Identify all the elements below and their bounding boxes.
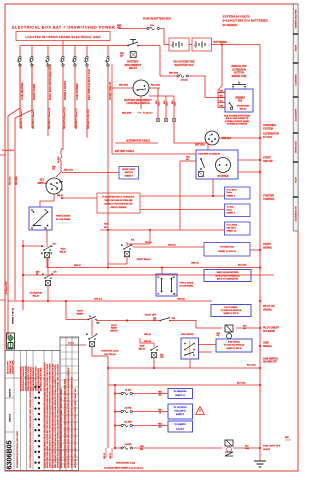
- svg-text:RED-441 To Sh 3,14: RED-441 To Sh 3,14: [87, 109, 90, 129]
- svg-text:10A-#24: 10A-#24: [180, 79, 188, 82]
- saw relay K6: [153, 343, 155, 347]
- svg-text:TIME & DIODE: TIME & DIODE: [56, 216, 71, 218]
- svg-text:INTERLOCK: INTERLOCK: [296, 141, 298, 153]
- svg-text:GRN 112: GRN 112: [144, 341, 151, 343]
- orn 517 wire: [161, 268, 163, 275]
- svg-text:354: 354: [140, 448, 143, 451]
- svg-text:73: 73: [158, 277, 160, 279]
- svg-text:TO SENSORS: TO SENSORS: [173, 391, 187, 393]
- svg-text:BLK 0116: BLK 0116: [237, 382, 246, 384]
- box to joystick pod: [168, 404, 193, 419]
- svg-text:PILOT: PILOT: [77, 310, 84, 312]
- svg-text:MANUAL P2S: MANUAL P2S: [232, 65, 247, 68]
- svg-text:RESET: RESET: [111, 328, 118, 330]
- svg-text:BATTERY CABLE: BATTERY CABLE: [115, 150, 135, 153]
- box from igan xs2: [225, 222, 251, 235]
- start relay K4: [126, 242, 128, 246]
- svg-text:SHEET 2: SHEET 2: [125, 175, 134, 177]
- svg-text:BUTTON: BUTTON: [234, 73, 244, 75]
- svg-text:IN SERIES: IN SERIES: [223, 23, 238, 27]
- svg-text:ORN 5,17: ORN 5,17: [191, 262, 199, 264]
- wires at lockable switch: [112, 87, 133, 89]
- svg-text:ACCESSORIES (SHEET 3,11,14,16,: ACCESSORIES (SHEET 3,11,14,16,17): [104, 467, 143, 470]
- svg-text:T4: T4: [45, 209, 47, 212]
- svg-text:ORN 11A: ORN 11A: [94, 298, 103, 301]
- svg-text:From Start: From Start: [227, 188, 237, 191]
- left edge ticks: [0, 154, 5, 156]
- svg-text:SCHEMATIC 6N: SCHEMATIC 6N: [295, 206, 298, 221]
- svg-text:30: 30: [51, 246, 53, 248]
- svg-text:RED 256A: RED 256A: [119, 84, 129, 87]
- starter box: [196, 150, 238, 179]
- svg-text:T1: T1: [31, 228, 33, 230]
- svg-text:RESET: RESET: [77, 314, 85, 316]
- svg-text:To Sheet 3,12: To Sheet 3,12: [5, 281, 8, 295]
- fuse F6 KEY SWITCH BUS / ACC: [86, 46, 88, 57]
- svg-text:WORK LIGHTS: WORK LIGHTS: [63, 81, 67, 100]
- solenoid contact: [200, 158, 202, 160]
- wire saw box bottom to bus: [189, 359, 191, 368]
- right reference strip: [293, 4, 298, 231]
- red29 red30 stubs: [105, 448, 107, 458]
- svg-text:ACTIVATION: ACTIVATION: [232, 68, 246, 71]
- P2S shutdown box U1: [225, 89, 253, 112]
- svg-text:CAB HEATER: CAB HEATER: [20, 83, 24, 100]
- svg-text:011: 011: [217, 335, 220, 337]
- svg-text:Sw-8-2: Sw-8-2: [68, 342, 74, 344]
- svg-text:30: 30: [96, 334, 98, 336]
- svg-text:SIGNAL: SIGNAL: [263, 308, 273, 311]
- svg-text:2,3,4,5,9: 2,3,4,5,9: [176, 428, 185, 431]
- svg-text:To Start: To Start: [227, 205, 235, 208]
- svg-text:353: 353: [159, 426, 162, 428]
- svg-text:KEY SWITCH BUS / ACC: KEY SWITCH BUS / ACC: [87, 69, 91, 100]
- svg-text:RUN (SHEET 3,12): RUN (SHEET 3,12): [116, 462, 135, 464]
- svg-text:INPUT TO HARVESTER: INPUT TO HARVESTER: [217, 278, 239, 281]
- left verticals to sheets: [8, 64, 20, 338]
- svg-text:START: START: [295, 44, 298, 51]
- svg-text:TYPE 1 DIODE: TYPE 1 DIODE: [180, 282, 194, 284]
- svg-text:SHEET 17 FOR IGNITION KEY: SHEET 17 FOR IGNITION KEY: [104, 204, 133, 206]
- orn 11a wire: [8, 300, 212, 302]
- type 1 diode box: [156, 274, 177, 296]
- used on harvesters box: [204, 270, 251, 282]
- svg-text:04/25/74: 04/25/74: [9, 388, 12, 397]
- battery link wire: [189, 44, 192, 46]
- svg-text:10A-RED: 10A-RED: [124, 420, 132, 423]
- svg-text:ELECTRICAL BOX BAT + UNSWITCHE: ELECTRICAL BOX BAT + UNSWITCHED POWER: [12, 26, 115, 30]
- P2S box feed stubs: [218, 92, 225, 94]
- svg-text:Relay: Relay: [227, 192, 233, 194]
- svg-text:467: 467: [186, 158, 189, 161]
- red 261 drops: [157, 88, 159, 122]
- svg-text:SHEET 12 PIN 35: SHEET 12 PIN 35: [223, 313, 238, 315]
- wire P2S fuse to shutdown box: [189, 76, 226, 98]
- svg-text:RED-252B: RED-252B: [122, 113, 132, 115]
- hydraulic note box: [97, 193, 140, 213]
- svg-text:PILOT ON/OFF: PILOT ON/OFF: [263, 328, 280, 330]
- wire key to work light box: [62, 172, 119, 174]
- svg-text:SIGNAL: SIGNAL: [263, 345, 273, 348]
- wire box4 to bus: [250, 249, 260, 251]
- svg-text:71: 71: [158, 294, 160, 296]
- col7 bus continues: [107, 230, 109, 268]
- wire to sheet 9: [140, 96, 142, 109]
- svg-text:(INSIDE CAB): (INSIDE CAB): [232, 75, 247, 78]
- svg-text:PILOT: PILOT: [111, 325, 117, 327]
- svg-text:SWITCH: SWITCH: [110, 330, 118, 332]
- svg-text:RELAY DISCONNECTS: RELAY DISCONNECTS: [226, 117, 249, 120]
- svg-text:WORK LIGHT: WORK LIGHT: [122, 169, 136, 171]
- svg-text:SHEET 12 PIN 36: SHEET 12 PIN 36: [226, 348, 241, 350]
- svg-text:LOCKABLE SWITCH: LOCKABLE SWITCH: [126, 102, 150, 105]
- svg-text:256: 256: [120, 55, 123, 57]
- svg-text:RELAY: RELAY: [240, 107, 247, 110]
- svg-text:711: 711: [173, 294, 176, 296]
- svg-text:SAW SWITCH: SAW SWITCH: [263, 357, 278, 360]
- svg-text:86: 86: [121, 245, 123, 247]
- wire alternator to bus: [219, 137, 260, 139]
- svg-text:SHEET 5: SHEET 5: [176, 414, 185, 416]
- svg-text:3A-RED: 3A-RED: [125, 406, 132, 409]
- warning triangle: [196, 407, 205, 415]
- svg-text:CAB POWER: CAB POWER: [75, 83, 79, 100]
- svg-text:LOCATED IN UPPER FRAME ELECTRI: LOCATED IN UPPER FRAME ELECTRICAL BOX: [25, 35, 100, 39]
- svg-text:TAN 29: TAN 29: [145, 241, 151, 244]
- bottom fuse 3: [115, 425, 121, 427]
- box from start relay sheet 9: [225, 187, 251, 199]
- work light switch box: [119, 167, 139, 180]
- svg-text:79: 79: [159, 412, 161, 414]
- title block grid: [13, 351, 15, 471]
- bottom feed bus: [107, 356, 109, 448]
- battery disconnect relay K1: [112, 45, 127, 47]
- svg-text:RELAY: RELAY: [33, 295, 40, 298]
- svg-text:WITH A PILOT INTERLOCK: WITH A PILOT INTERLOCK: [215, 274, 240, 277]
- wire saw switch to saw signal: [199, 344, 217, 346]
- svg-text:ORN 110: ORN 110: [144, 334, 151, 336]
- svg-text:TAN 140: TAN 140: [168, 243, 175, 246]
- svg-text:UNSWITCHED PWR: UNSWITCHED PWR: [296, 9, 298, 28]
- function relay wires: [91, 320, 93, 333]
- svg-text:24 VOLT: 24 VOLT: [263, 136, 273, 139]
- svg-text:1138: 1138: [160, 357, 164, 359]
- fuse F2 ROOF PUMP: [31, 46, 33, 57]
- pilot signal box: [211, 305, 251, 317]
- svg-text:P2S SYSTEM SHUTDOWN: P2S SYSTEM SHUTDOWN: [224, 116, 250, 118]
- svg-text:SWITCH: SWITCH: [125, 172, 133, 174]
- svg-text:SHUTDOWN: SHUTDOWN: [237, 106, 250, 108]
- svg-text:CONTROL: CONTROL: [263, 198, 275, 201]
- run relay K2: [46, 243, 48, 247]
- svg-text:IN BATTERY BOX: IN BATTERY BOX: [174, 64, 194, 67]
- svg-text:RELAY: RELAY: [139, 348, 146, 351]
- fuse F1 CAB HEATER: [19, 46, 21, 57]
- wire fuse to battery 1: [159, 29, 169, 45]
- svg-text:T11: T11: [44, 228, 47, 230]
- svg-text:3A-RED: 3A-RED: [57, 156, 60, 163]
- starter motor M: [216, 158, 231, 173]
- svg-text:RELAY: RELAY: [60, 251, 67, 254]
- svg-text:86: 86: [86, 334, 88, 336]
- svg-text:RED 255A: RED 255A: [9, 176, 12, 185]
- svg-text:ELEC BOX SWITCHED PWR: ELEC BOX SWITCHED PWR: [48, 64, 52, 100]
- svg-text:SAW SIGNAL: SAW SIGNAL: [228, 340, 241, 343]
- svg-text:RED-439 To Sheet 3,5: RED-439 To Sheet 3,5: [48, 107, 51, 129]
- svg-text:FUNCTION LOCK: FUNCTION LOCK: [101, 351, 119, 353]
- svg-text:START RELAY: START RELAY: [108, 81, 112, 100]
- alternator G1: [205, 131, 219, 145]
- svg-text:CHARGING: CHARGING: [295, 74, 298, 85]
- svg-text:SYSTEM ACTIVATED: SYSTEM ACTIVATED: [227, 123, 248, 126]
- svg-text:TAN: TAN: [104, 222, 108, 225]
- svg-text:CHK APPR DWN: CHK APPR DWN: [11, 360, 14, 374]
- key switch S2: [46, 178, 62, 194]
- saw switch box: [181, 338, 199, 359]
- svg-text:481: 481: [159, 393, 162, 396]
- svg-text:60A: 60A: [150, 24, 154, 27]
- sheet ref riser: [212, 179, 214, 196]
- svg-text:ACCESSORY: ACCESSORY: [29, 291, 43, 294]
- box to sensors: [168, 389, 193, 399]
- svg-text:87: 87: [51, 253, 53, 255]
- svg-text:BAT (B+): BAT (B+): [195, 144, 205, 147]
- svg-text:0134: 0134: [245, 447, 249, 450]
- svg-text:6306B05: 6306B05: [5, 440, 14, 469]
- svg-text:-: -: [186, 43, 187, 47]
- svg-text:TO IGAN XS2 MODULE: TO IGAN XS2 MODULE: [224, 344, 245, 347]
- fuse F7 START RELAY: [107, 46, 109, 57]
- svg-text:SHEET 1 OF 22: SHEET 1 OF 22: [13, 307, 15, 324]
- svg-text:BLK 0133: BLK 0133: [247, 365, 256, 367]
- svg-text:RUN: RUN: [61, 248, 66, 250]
- svg-text:RED-440 To Sheet 11: RED-440 To Sheet 11: [75, 108, 78, 129]
- svg-text:SHEET 12 PIN 34: SHEET 12 PIN 34: [218, 250, 236, 253]
- svg-text:PILOT SIGNAL: PILOT SIGNAL: [224, 306, 238, 309]
- svg-text:C60UCF: C60UCF: [10, 413, 12, 422]
- svg-text:REVISED PER ECN A76043 ADDED S: REVISED PER ECN A76043 ADDED SAW RELAY A…: [57, 363, 60, 468]
- svg-text:IN CAB PANEL: IN CAB PANEL: [56, 218, 71, 221]
- battery disconnect lockable switch S1: [133, 80, 149, 96]
- svg-text:P2S: P2S: [238, 101, 243, 103]
- svg-text:PILOT: PILOT: [296, 176, 298, 183]
- svg-text:SHEET 9: SHEET 9: [227, 213, 236, 215]
- svg-text:Relay: Relay: [227, 209, 233, 211]
- box to igan xs2 pin 34: [204, 243, 250, 257]
- bullet dots: [38, 386, 40, 388]
- svg-text:RED 29: RED 29: [104, 453, 106, 459]
- battery feed to P2S: [218, 45, 225, 93]
- battery B2: [192, 38, 212, 51]
- svg-text:REVISION RECORD ECN DESCR: REVISION RECORD ECN DESCR: [21, 365, 23, 391]
- svg-text:SCHEMATIC,ELECTRICAL,6M0 HARV: SCHEMATIC,ELECTRICAL,6M0 HARV: [16, 430, 19, 468]
- svg-text:STARTER SOLENOID: STARTER SOLENOID: [198, 152, 221, 155]
- bottom fuse 1: [115, 393, 121, 395]
- svg-text:TANK VACUUM SYSTEM SEE: TANK VACUUM SYSTEM SEE: [105, 199, 134, 202]
- wire valve to bus: [233, 447, 260, 449]
- svg-text:IF EQUIPPED WITH A HYDRAULIC: IF EQUIPPED WITH A HYDRAULIC: [102, 196, 135, 199]
- svg-text:SHOWN OFF: SHOWN OFF: [263, 362, 278, 364]
- svg-text:431: 431: [52, 168, 55, 171]
- battery B1: [169, 38, 189, 51]
- svg-text:From IGAN: From IGAN: [227, 223, 238, 226]
- svg-text:SHEET 13: SHEET 13: [175, 395, 185, 397]
- svg-text:RED 30: RED 30: [110, 453, 112, 459]
- title block outer: [5, 351, 60, 471]
- P2S box contact: [229, 102, 231, 104]
- svg-text:T3: T3: [31, 210, 33, 212]
- timer box: [29, 207, 52, 230]
- svg-text:IN CAB PANEL: IN CAB PANEL: [180, 285, 195, 288]
- fuse bank bus: [20, 45, 112, 47]
- svg-text:SHEET 9: SHEET 9: [227, 195, 236, 197]
- wire start relay to box4: [133, 246, 204, 248]
- accessory relay feed: [47, 258, 49, 271]
- svg-text:RED-437 To Sheet 3: RED-437 To Sheet 3: [20, 109, 23, 129]
- svg-text:To Sheet 9: To Sheet 9: [143, 112, 152, 115]
- svg-text:PILOT OFF: PILOT OFF: [145, 315, 157, 317]
- wire key down to timer: [40, 194, 54, 207]
- svg-text:KEY: KEY: [40, 180, 45, 182]
- svg-text:ALTERNATOR CABLE: ALTERNATOR CABLE: [126, 140, 150, 143]
- svg-text:AWEMDI: AWEMDI: [235, 97, 245, 100]
- fuse F4 WORK LIGHTS: [62, 46, 64, 57]
- ground stud symbol (green): [7, 333, 15, 349]
- svg-text:P2S SYSTEM FUSE: P2S SYSTEM FUSE: [173, 62, 195, 64]
- located-in box: [16, 32, 110, 41]
- svg-text:30: 30: [131, 245, 133, 247]
- saw signal box: [216, 339, 252, 352]
- svg-text:XS2 PIN 9: XS2 PIN 9: [227, 227, 237, 229]
- box to sheets 23459: [168, 421, 193, 432]
- svg-text:BATTERIES: BATTERIES: [214, 41, 228, 44]
- svg-text:RELAY: RELAY: [129, 67, 138, 70]
- svg-text:RED 243B: RED 243B: [15, 176, 18, 185]
- svg-text:USED ON HARVESTERS: USED ON HARVESTERS: [216, 271, 239, 274]
- svg-text:903: 903: [104, 227, 107, 229]
- svg-text:STARTER: STARTER: [217, 175, 228, 178]
- svg-text:POWER SOURCE WHEN: POWER SOURCE WHEN: [225, 121, 250, 123]
- svg-text:ROOF PUMP: ROOF PUMP: [32, 84, 36, 100]
- svg-text:RED-43 To Sheet 2,3,4: RED-43 To Sheet 2,3,4: [63, 106, 66, 129]
- accessory relay K3: [47, 271, 49, 275]
- svg-text:VALVE: VALVE: [263, 448, 271, 451]
- key feed breaker: [61, 148, 63, 155]
- wires starter to bus: [238, 159, 260, 161]
- svg-text:TO IGAN XS2 MODULE: TO IGAN XS2 MODULE: [221, 309, 242, 312]
- svg-text:SHEET 12: SHEET 12: [227, 231, 237, 233]
- pilot solenoid Y1: [225, 325, 233, 332]
- bottom fuse 4: [115, 447, 121, 449]
- wire tan467: [180, 160, 196, 162]
- fuel shutoff valve Y2: [225, 440, 233, 446]
- fuse F5 CAB POWER: [74, 46, 76, 57]
- bottom fuse 2: [115, 411, 121, 413]
- svg-text:-: -: [209, 43, 210, 47]
- svg-text:TO JOYSTICK: TO JOYSTICK: [173, 407, 187, 409]
- svg-text:011: 011: [243, 328, 246, 330]
- svg-text:To Sheet 3,5,9: To Sheet 3,5,9: [2, 149, 14, 152]
- wire battery to P2S feed: [212, 44, 261, 46]
- svg-text:RED 252A: RED 252A: [151, 84, 161, 87]
- relay interconnect wires: [22, 240, 24, 310]
- svg-text:FUSE IN BATTERY BOX: FUSE IN BATTERY BOX: [143, 18, 171, 21]
- svg-text:TO IGAN XS2: TO IGAN XS2: [220, 246, 235, 249]
- svg-text:CIRCUIT: CIRCUIT: [263, 160, 273, 163]
- svg-text:ADDED HEX SIGNAL DISCONNECT RE: ADDED HEX SIGNAL DISCONNECT RELAY AND CA…: [49, 363, 52, 468]
- svg-text:SOLENOID: SOLENOID: [263, 331, 275, 333]
- svg-text:SAW SWITCH: SAW SWITCH: [181, 333, 195, 336]
- svg-text:RED 43TA: RED 43TA: [64, 169, 74, 172]
- svg-text:SYSTEM: SYSTEM: [263, 127, 273, 130]
- svg-text:24 VOLT SYSTEM SCHEMATIC NOTES: 24 VOLT SYSTEM SCHEMATIC NOTES SHEET 1 P…: [29, 390, 32, 468]
- function lock out relay K5: [91, 332, 93, 336]
- svg-text:3A-RED: 3A-RED: [125, 443, 132, 446]
- svg-text:SWITCH: SWITCH: [37, 183, 46, 185]
- svg-text:FUEL SHUT OFF: FUEL SHUT OFF: [263, 445, 281, 447]
- svg-text:SIGNAL: SIGNAL: [263, 246, 273, 249]
- svg-text:85: 85: [41, 253, 43, 255]
- svg-text:BLK 434A: BLK 434A: [238, 263, 247, 266]
- svg-text:5A-#14: 5A-#14: [125, 388, 131, 391]
- svg-text:OUT RELAY: OUT RELAY: [104, 353, 116, 356]
- box to start relay sheet 9: [225, 204, 251, 217]
- svg-text:TO SHEETS: TO SHEETS: [174, 424, 186, 426]
- right main bus: [259, 45, 261, 449]
- svg-text:SAW: SAW: [140, 344, 145, 347]
- fuse F3 ELEC BOX SWITCHED PWR: [47, 46, 49, 57]
- title block row ticks: [60, 337, 79, 339]
- tan 903 wire: [100, 229, 224, 231]
- svg-text:ORN 110: ORN 110: [177, 299, 185, 301]
- svg-text:RED 150B: RED 150B: [169, 73, 179, 75]
- svg-text:RED-438 To Sheet 2: RED-438 To Sheet 2: [32, 109, 35, 129]
- svg-text:RED 63: RED 63: [74, 265, 81, 267]
- ground symbol: [259, 448, 261, 461]
- svg-text:RELAY: RELAY: [57, 194, 64, 197]
- svg-text:SWITCH WIRING: SWITCH WIRING: [111, 207, 127, 209]
- saw relay wires: [140, 342, 154, 344]
- timer to run relay wire: [46, 230, 48, 243]
- svg-text:START RELAY: START RELAY: [137, 258, 152, 261]
- blk 0116 wire: [115, 384, 260, 386]
- svg-text:POD (LEFT): POD (LEFT): [174, 410, 186, 412]
- wire pilot to solenoid: [170, 321, 222, 329]
- pushbutton symbol: [232, 86, 234, 88]
- wire header to battery fuse: [118, 28, 147, 30]
- svg-text:ACCESSORY: ACCESSORY: [295, 108, 298, 121]
